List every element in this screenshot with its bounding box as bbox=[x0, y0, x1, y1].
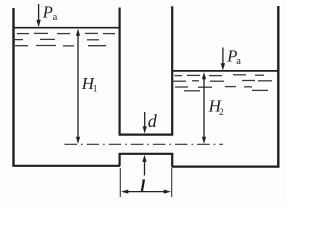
svg-text:2: 2 bbox=[219, 108, 224, 118]
left tank right wall bbox=[118, 8, 120, 135]
svg-text:a: a bbox=[53, 12, 58, 23]
tube left step bbox=[118, 153, 120, 165]
l dimension extension line right bbox=[171, 168, 173, 197]
Pa arrow (right tank) bbox=[221, 48, 225, 71]
svg-text:1: 1 bbox=[93, 84, 98, 94]
d dimension: upper arrow bbox=[143, 112, 147, 134]
H2 dimension arrow bbox=[202, 72, 206, 144]
left tank water dashes bbox=[14, 33, 116, 46]
right water surface bbox=[172, 70, 278, 72]
tube bottom wall bbox=[119, 153, 174, 155]
right tank bottom bbox=[172, 166, 280, 168]
Pa arrow (left tank) bbox=[36, 4, 40, 27]
svg-text:a: a bbox=[236, 56, 241, 67]
d dimension: lower arrow bbox=[142, 155, 146, 176]
right tank right wall bbox=[277, 6, 279, 168]
H1 dimension arrow bbox=[76, 29, 80, 144]
right tank water dashes bbox=[173, 75, 273, 91]
svg-text:d: d bbox=[148, 111, 158, 131]
right tank left wall bbox=[171, 6, 173, 134]
left tank left wall bbox=[12, 8, 14, 166]
l dimension arrow bbox=[121, 190, 171, 194]
svg-text:l: l bbox=[140, 176, 145, 196]
left water surface bbox=[13, 27, 120, 29]
l dimension extension line left bbox=[119, 168, 121, 197]
tube top wall bbox=[119, 134, 174, 136]
left tank bottom bbox=[12, 165, 120, 167]
centerline (dash-dot) bbox=[65, 143, 224, 145]
svg-text:P: P bbox=[42, 2, 53, 21]
tube right step bbox=[171, 153, 173, 166]
